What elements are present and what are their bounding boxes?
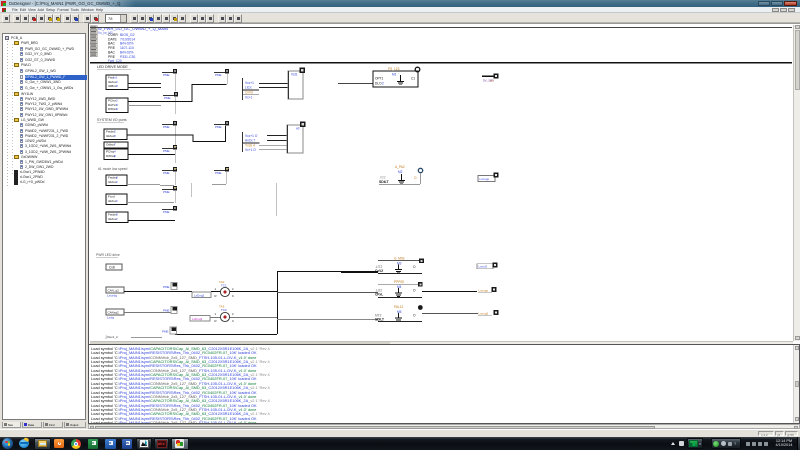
- wire: [378, 284, 422, 285]
- wire (vertical, light): [227, 74, 228, 84]
- svg-text:1: 1: [215, 312, 217, 316]
- svg-text:PME: PME: [163, 73, 170, 77]
- svg-text:8: 8: [116, 84, 118, 88]
- svg-text:DLO: DLO: [375, 82, 382, 86]
- component U1 with ground: [373, 67, 418, 87]
- svg-text:Vst1: Vst1: [291, 73, 298, 77]
- svg-text:CAN_q2: CAN_q2: [108, 289, 120, 293]
- start orb: [2, 438, 13, 449]
- svg-text:PME: PME: [163, 210, 170, 214]
- svg-text:#1 mode low speed: #1 mode low speed: [98, 167, 128, 171]
- CG3 corner glyph: [418, 305, 423, 310]
- left navigator tree panel: [0, 25, 88, 422]
- section label POWER section: [96, 253, 120, 258]
- offpage connector PME3: [162, 121, 177, 129]
- wire: [277, 292, 378, 293]
- CG1 corner glyph: [419, 259, 424, 264]
- tray arrow: [671, 442, 675, 445]
- wire (vertical, light): [175, 191, 176, 203]
- svg-text:PME: PME: [163, 125, 170, 129]
- svg-text:CPxL: CPxL: [375, 293, 383, 297]
- wire (vertical, light): [226, 172, 227, 184]
- wire: [124, 291, 192, 292]
- svg-text:PS_L23: PS_L23: [388, 67, 400, 71]
- svg-text:Lxnxg2: Lxnxg2: [479, 312, 489, 316]
- schematic v-scrollbar: [793, 25, 800, 341]
- block B7: [106, 194, 127, 204]
- pin table T2: [242, 132, 260, 152]
- block B1 status: [106, 75, 128, 90]
- IE icon: [19, 439, 29, 448]
- offpage connector PME7: [162, 206, 177, 214]
- offpage connector PME6: [162, 186, 177, 194]
- block B3: [104, 129, 127, 139]
- wire: [212, 184, 226, 185]
- wire (vertical, light): [175, 74, 176, 91]
- svg-text:Yx3x 4: Yx3x 4: [245, 144, 255, 148]
- svg-text:PME: PME: [163, 171, 170, 175]
- wire: [128, 220, 175, 221]
- svg-text:CxVd: CxVd: [245, 91, 253, 95]
- svg-text:M5: M5: [397, 310, 402, 314]
- svg-text:O: O: [413, 289, 416, 293]
- wire: [259, 87, 288, 88]
- status bar: [0, 429, 800, 437]
- wire: [378, 273, 422, 274]
- section label mode low speed: [98, 167, 128, 171]
- tray green button: [687, 438, 703, 449]
- schematic window: [88, 23, 800, 344]
- sheet attribute rows: [108, 33, 135, 37]
- svg-text:Cx8: Cx8: [109, 266, 115, 270]
- wire (vertical, light): [191, 183, 192, 197]
- block B6: [106, 175, 127, 185]
- hierarchical block TB1: [288, 71, 303, 99]
- offpage connector PME4: [162, 145, 177, 153]
- ground symbol CG3: [395, 313, 402, 322]
- svg-text:M2: M2: [398, 170, 403, 174]
- offpage connector LIN3: [214, 167, 229, 175]
- svg-text:CANxq2: CANxq2: [108, 311, 120, 315]
- wire: [128, 202, 174, 203]
- svg-text:OPT1: OPT1: [375, 77, 384, 81]
- component MG1 with ground: [379, 165, 417, 184]
- CG2 corner glyph: [418, 282, 423, 287]
- offpage connector PME8: [163, 283, 177, 290]
- sheet name text: [98, 26, 168, 31]
- word icon: [122, 439, 132, 449]
- bw app button: [136, 438, 152, 450]
- wire: [128, 105, 161, 106]
- svg-text:PME: PME: [163, 309, 170, 313]
- U1 corner ring glyph: [415, 67, 420, 72]
- svg-text:PME: PME: [163, 285, 170, 289]
- svg-text:AxCx 7: AxCx 7: [245, 139, 256, 143]
- svg-text:8: 8: [114, 154, 116, 158]
- wire: [160, 185, 174, 186]
- offpage connector LIN2: [214, 121, 229, 129]
- svg-text:SDILT: SDILT: [379, 180, 389, 184]
- svg-text:A_PA2: A_PA2: [395, 165, 405, 169]
- wire: [128, 83, 161, 84]
- svg-text:PME: PME: [215, 73, 222, 77]
- clock: [772, 439, 796, 449]
- wire: [378, 321, 422, 322]
- svg-text:O: O: [413, 314, 416, 318]
- svg-text:PME: PME: [215, 125, 222, 129]
- offpage connector PME1: [162, 69, 177, 77]
- wire: [124, 312, 171, 313]
- svg-text:C: C: [232, 319, 234, 323]
- svg-text:O: O: [414, 176, 417, 180]
- active app button: [171, 438, 189, 450]
- block B10 (row B left box): [106, 309, 124, 320]
- media icon: [54, 439, 64, 448]
- offpage connector PME2: [163, 92, 178, 100]
- svg-text:2: 2: [382, 82, 384, 86]
- svg-text:R: R: [215, 294, 217, 298]
- svg-text:LxDxq3: LxDxq3: [192, 317, 203, 321]
- section label SYSTEM I/O: [97, 118, 127, 123]
- svg-text:O: O: [413, 265, 416, 269]
- svg-text:SDILT: SDILT: [375, 318, 384, 322]
- excel icon: [88, 439, 98, 449]
- TB2 corner glyph: [300, 122, 306, 128]
- svg-text:7: 7: [114, 143, 116, 147]
- svg-text:M1: M1: [392, 73, 397, 77]
- wire: [267, 140, 287, 141]
- offpage connector netR3: [478, 310, 499, 316]
- offpage connector PME9: [162, 327, 177, 334]
- wire: [378, 297, 422, 298]
- svg-text:Vcc+1: Vcc+1: [245, 81, 254, 85]
- wire: [259, 149, 287, 150]
- console log: [88, 344, 800, 424]
- outlook icon: [105, 439, 116, 449]
- console scrollbar: [88, 424, 800, 429]
- svg-text:PWR LED drive: PWR LED drive: [96, 253, 120, 257]
- component CG3 with ground: [375, 305, 416, 321]
- svg-text:M3: M3: [397, 262, 402, 266]
- svg-text:8: 8: [116, 107, 118, 111]
- wire: [379, 184, 420, 185]
- toolbar: [0, 13, 800, 23]
- net label box LB1: [192, 292, 211, 298]
- wire (vertical, light): [175, 126, 176, 147]
- bottom tabs: [2, 422, 88, 429]
- MG1 ring glyph: [418, 168, 422, 172]
- ground symbol inside U1: [397, 75, 404, 85]
- block B9: [106, 287, 124, 298]
- offpage connector PME5: [162, 167, 177, 175]
- wire net B3 to LIN2: [127, 126, 226, 142]
- LED D2: [215, 305, 235, 324]
- offpage connector net1: [482, 73, 499, 82]
- offpage connector LIN1: [214, 69, 229, 77]
- pin table T1: [242, 78, 259, 100]
- svg-text:2: 2: [232, 312, 234, 316]
- section label LED DRIVE MODE: [97, 65, 131, 70]
- wire net B2 to LIN1: [128, 84, 227, 102]
- wire: [211, 291, 220, 292]
- wire: [128, 154, 175, 155]
- wire: [420, 173, 421, 184]
- wire: [230, 291, 277, 292]
- wire: [230, 317, 277, 318]
- offpage connector net2 (boxed): [478, 173, 499, 182]
- wire: [259, 145, 287, 146]
- wire: [128, 87, 161, 88]
- svg-text:TC2: TC2: [221, 308, 227, 312]
- offpage connector netR2: [478, 287, 497, 293]
- svg-text:LED DRIVE MODE: LED DRIVE MODE: [97, 65, 128, 69]
- wire (vertical, light): [175, 150, 176, 163]
- hierarchical block TB2: [287, 125, 303, 153]
- svg-text:1: 1: [215, 287, 217, 291]
- svg-text:8: 8: [114, 134, 116, 138]
- windows taskbar: [0, 437, 800, 450]
- svg-text:Vcc+1 O: Vcc+1 O: [245, 134, 258, 138]
- svg-text:PPP05: PPP05: [394, 280, 404, 284]
- svg-text:PME: PME: [163, 149, 170, 153]
- wire: [267, 135, 287, 136]
- rev note text: [105, 335, 118, 339]
- offpage connector netR1: [477, 263, 498, 269]
- svg-text:Lxnxgx: Lxnxgx: [479, 289, 489, 293]
- svg-text:2: 2: [232, 287, 234, 291]
- ground symbol MG1: [398, 174, 405, 184]
- component CG2 with ground: [375, 280, 416, 296]
- wire: [422, 291, 477, 292]
- wire (vertical, light): [175, 97, 176, 114]
- component CG1 with ground: [375, 257, 416, 273]
- block B4: [104, 142, 128, 148]
- TB1 corner glyph: [300, 68, 306, 74]
- svg-text:.V22: .V22: [379, 176, 386, 180]
- wire: [128, 184, 160, 185]
- svg-text:LtCx: LtCx: [245, 86, 252, 90]
- show desktop: [797, 437, 800, 450]
- title bar: [0, 0, 800, 7]
- net label box LB2: [190, 316, 210, 322]
- ground symbol CG1: [395, 265, 402, 274]
- svg-text:2: 2: [116, 180, 118, 184]
- svg-text:PME: PME: [162, 330, 169, 334]
- sheet subtitle text: [98, 31, 113, 35]
- block B5: [104, 149, 128, 159]
- svg-text:Vc+1: Vc+1: [245, 96, 253, 100]
- wire: [378, 260, 422, 261]
- wire: [277, 319, 378, 320]
- svg-text:PME: PME: [215, 171, 222, 175]
- ground symbol CG2: [395, 288, 402, 297]
- svg-text:Lxxxxlg: Lxxxxlg: [107, 294, 117, 298]
- wire (vertical, light): [175, 172, 176, 185]
- svg-text:2: 2: [116, 217, 118, 221]
- sheet top border line: [90, 62, 792, 63]
- sheet header row cells: [90, 26, 97, 30]
- wire: [422, 313, 478, 314]
- sheet frame top line: [90, 27, 792, 28]
- svg-text:vd: vd: [296, 127, 300, 131]
- wire: [210, 317, 220, 318]
- svg-text:Lxxlg: Lxxlg: [107, 316, 114, 320]
- tray group 2: [711, 438, 741, 449]
- wire (vertical, light): [276, 183, 277, 216]
- svg-text:C: C: [232, 294, 234, 298]
- wire: [341, 272, 378, 273]
- svg-text:LxnxO: LxnxO: [479, 265, 488, 269]
- wire: [175, 334, 277, 335]
- svg-text:LxDxq2: LxDxq2: [194, 293, 205, 297]
- svg-text:C1: C1: [411, 77, 415, 81]
- schematic h-scrollbar: [90, 341, 793, 345]
- tray icon lock: [679, 441, 684, 446]
- wire: [131, 337, 162, 338]
- wire: [338, 83, 373, 84]
- LED D1: [215, 280, 235, 298]
- block B8: [106, 212, 128, 222]
- chrome icon: [71, 439, 81, 449]
- console v-scrollbar: [793, 345, 799, 423]
- svg-text:M4: M4: [397, 285, 402, 289]
- svg-text:PME: PME: [164, 96, 171, 100]
- svg-text:o1: o1: [490, 78, 494, 82]
- wire: [259, 83, 288, 84]
- menu bar: [0, 7, 800, 13]
- block B2 status: [106, 98, 128, 113]
- svg-text:TC1: TC1: [221, 284, 227, 288]
- wire: [277, 271, 378, 272]
- wire: [277, 271, 278, 334]
- svg-text:P331-C30: P331-C30: [120, 55, 135, 59]
- svg-text:Vc+1 O: Vc+1 O: [245, 148, 256, 152]
- svg-text:PME: PME: [163, 190, 170, 194]
- svg-text:⎦ Rev1_2: ⎦ Rev1_2: [105, 335, 118, 339]
- svg-text:PAL12: PAL12: [394, 305, 404, 309]
- svg-text:R: R: [215, 319, 217, 323]
- explorer button: [34, 438, 51, 450]
- red app button: [154, 438, 169, 450]
- svg-text:Lxnxgx: Lxnxgx: [480, 177, 490, 181]
- svg-text:2: 2: [116, 199, 118, 203]
- offpage connector PME10: [163, 307, 177, 314]
- svg-text:SYSTEM I/O ports: SYSTEM I/O ports: [97, 118, 127, 122]
- small box C_ref: [106, 264, 122, 270]
